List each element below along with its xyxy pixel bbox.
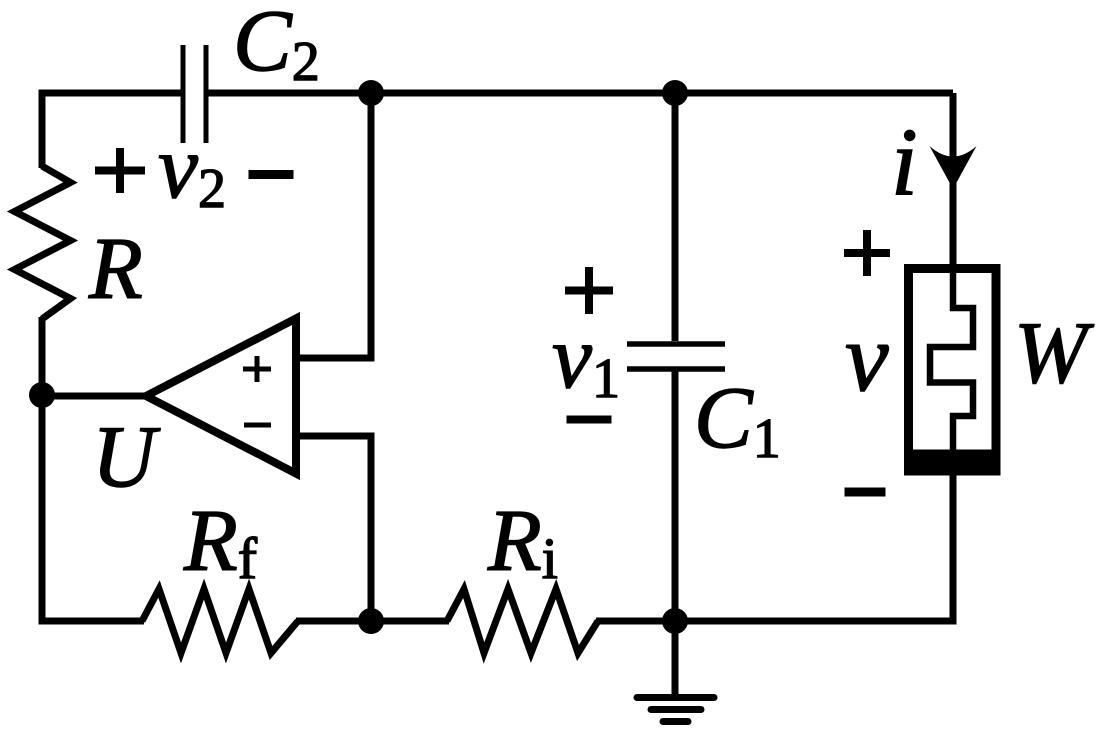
label + of v (memristor)	[844, 230, 890, 276]
svg-text:Rf: Rf	[183, 493, 258, 591]
svg-text:Ri: Ri	[487, 493, 558, 591]
wire left vertical lower	[39, 317, 46, 625]
op-amp - input marker	[244, 423, 271, 428]
label + of v2	[95, 148, 145, 193]
resistor Ri	[447, 589, 598, 653]
label + of v1	[565, 267, 613, 314]
capacitor C1	[627, 344, 725, 369]
wire bottom right segment	[596, 618, 953, 625]
svg-text:W: W	[1014, 305, 1094, 402]
node junction top C1 branch	[662, 80, 688, 106]
wire right vertical lower	[950, 472, 957, 625]
svg-text:i: i	[891, 108, 918, 215]
wire top horizontal left segment	[39, 90, 182, 97]
memristor W	[904, 266, 1001, 476]
svg-text:v2: v2	[158, 118, 226, 220]
svg-text:R: R	[88, 221, 143, 318]
wire left vertical upper	[39, 90, 46, 169]
ground	[637, 621, 714, 722]
resistor R	[15, 166, 71, 319]
node junction op-amp output	[29, 382, 55, 408]
wire from top node down to op-amp + input	[296, 93, 371, 358]
node junction bottom C1/ground	[662, 608, 688, 634]
label - of v (memristor)	[845, 488, 886, 497]
op-amp + input marker	[243, 356, 271, 382]
node junction bottom Rf/Ri	[358, 608, 384, 634]
svg-text:C2: C2	[233, 0, 320, 93]
wire bottom left segment	[42, 618, 144, 625]
svg-text:C1: C1	[694, 370, 781, 470]
wire C1 branch lower	[672, 371, 679, 621]
node junction top-left of C2 net	[358, 80, 384, 106]
label - of v2	[249, 170, 294, 179]
wire C1 branch upper	[672, 93, 679, 341]
svg-text:U: U	[92, 409, 161, 506]
svg-text:v1: v1	[552, 308, 620, 410]
wire from op-amp - input down to bottom node	[296, 436, 371, 621]
current arrow i on memristor branch	[930, 146, 977, 189]
svg-text:v: v	[845, 304, 889, 412]
label - of v1	[567, 416, 612, 424]
wire op-amp output to left node	[42, 393, 150, 400]
wire top horizontal right of C2	[208, 90, 953, 97]
wire right vertical upper	[950, 93, 957, 268]
op-amp U triangle	[146, 319, 296, 474]
resistor Rf	[142, 589, 298, 653]
capacitor C2	[183, 45, 206, 143]
wire bottom between Rf and Ri	[296, 618, 449, 625]
